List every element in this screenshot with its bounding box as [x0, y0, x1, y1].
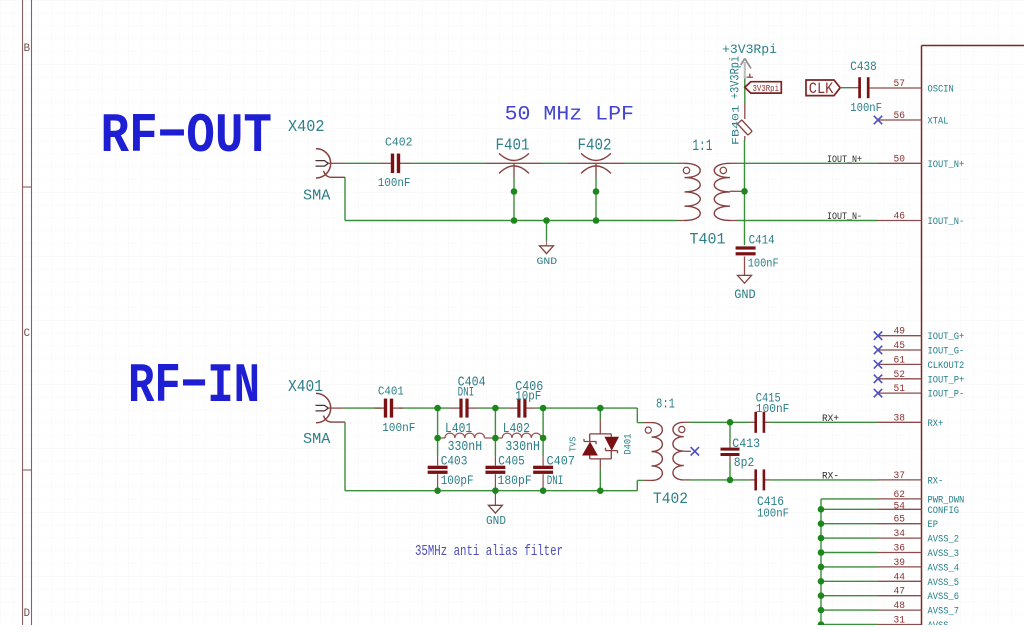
svg-text:51: 51 [894, 384, 906, 395]
svg-text:CLKOUT2: CLKOUT2 [928, 361, 965, 372]
svg-text:C405: C405 [498, 454, 525, 469]
svg-text:RX+: RX+ [928, 419, 944, 430]
svg-text:X402: X402 [288, 117, 325, 136]
svg-text:RX+: RX+ [822, 414, 839, 425]
svg-text:AVSS_4: AVSS_4 [928, 563, 960, 574]
svg-text:50 MHz LPF: 50 MHz LPF [505, 104, 634, 127]
svg-text:100nF: 100nF [850, 101, 882, 115]
svg-text:46: 46 [894, 212, 906, 223]
svg-text:39: 39 [894, 558, 906, 569]
svg-text:PWR_DWN: PWR_DWN [928, 495, 965, 506]
svg-text:AVSS_5: AVSS_5 [928, 578, 960, 589]
svg-text:45: 45 [894, 341, 906, 352]
svg-text:AVSS_2: AVSS_2 [928, 535, 960, 546]
svg-text:56: 56 [894, 111, 906, 122]
svg-text:T401: T401 [690, 231, 726, 249]
svg-text:IOUT_G-: IOUT_G- [928, 347, 965, 358]
svg-text:65: 65 [894, 515, 906, 526]
svg-text:34: 34 [894, 529, 906, 540]
svg-text:C: C [24, 328, 31, 340]
svg-text:X401: X401 [288, 377, 323, 396]
svg-text:XTAL: XTAL [928, 117, 949, 128]
svg-text:31: 31 [894, 616, 906, 626]
svg-text:DNI: DNI [547, 473, 564, 488]
svg-text:100nF: 100nF [757, 507, 789, 521]
svg-text:RX-: RX- [822, 471, 839, 482]
svg-text:180pF: 180pF [498, 473, 532, 488]
svg-text:RX-: RX- [928, 476, 944, 487]
svg-text:FB401: FB401 [731, 105, 743, 145]
svg-text:100pF: 100pF [441, 473, 474, 488]
svg-text:IOUT_N+: IOUT_N+ [928, 160, 965, 171]
svg-text:DNI: DNI [458, 385, 475, 399]
svg-text:AVSS_7: AVSS_7 [928, 607, 960, 618]
svg-text:L402: L402 [503, 422, 530, 437]
svg-text:C414: C414 [749, 234, 775, 248]
svg-text:54: 54 [894, 501, 906, 512]
svg-text:100nF: 100nF [756, 402, 790, 416]
svg-text:F402: F402 [578, 136, 612, 155]
svg-text:IOUT_N-: IOUT_N- [827, 212, 862, 223]
svg-text:62: 62 [894, 490, 906, 501]
svg-text:1:1: 1:1 [692, 137, 712, 155]
svg-text:35MHz anti alias filter: 35MHz anti alias filter [415, 543, 563, 560]
svg-text:10pF: 10pF [515, 389, 541, 404]
svg-text:C402: C402 [385, 137, 413, 150]
svg-text:GND: GND [537, 256, 558, 268]
svg-text:IOUT_N-: IOUT_N- [928, 217, 965, 228]
svg-text:100nF: 100nF [748, 257, 779, 271]
svg-text:L401: L401 [445, 422, 472, 437]
svg-text:SMA: SMA [303, 432, 331, 448]
svg-text:CLK: CLK [809, 80, 834, 98]
svg-text:37: 37 [894, 471, 906, 482]
svg-text:EP: EP [928, 520, 939, 531]
svg-text:CONFIG: CONFIG [928, 506, 960, 517]
svg-text:T402: T402 [653, 490, 688, 508]
svg-text:3V3Rpi: 3V3Rpi [753, 83, 780, 94]
svg-text:OSCIN: OSCIN [928, 85, 954, 96]
svg-text:100nF: 100nF [382, 422, 415, 435]
svg-text:330nH: 330nH [448, 440, 483, 455]
svg-text:C407: C407 [547, 454, 576, 469]
svg-text:IOUT_P-: IOUT_P- [928, 390, 965, 401]
svg-text:TVS: TVS [568, 436, 579, 451]
svg-text:+3V3Rpi: +3V3Rpi [722, 42, 777, 57]
svg-text:GND: GND [486, 515, 506, 528]
svg-text:AVSS_6: AVSS_6 [928, 592, 960, 603]
svg-text:SMA: SMA [303, 188, 331, 204]
svg-text:AVSS: AVSS [928, 621, 949, 625]
svg-text:36: 36 [894, 544, 906, 555]
svg-text:57: 57 [894, 79, 906, 90]
svg-text:52: 52 [894, 370, 906, 381]
svg-text:D: D [24, 608, 31, 620]
svg-text:C413: C413 [732, 437, 760, 451]
svg-text:C403: C403 [441, 454, 468, 469]
svg-text:8:1: 8:1 [656, 397, 675, 413]
svg-text:GND: GND [734, 287, 756, 302]
svg-text:330nH: 330nH [505, 440, 540, 455]
svg-text:61: 61 [894, 355, 906, 366]
svg-text:IOUT_N+: IOUT_N+ [827, 155, 862, 166]
svg-text:B: B [24, 43, 31, 55]
svg-text:+3V3Rpi: +3V3Rpi [728, 56, 743, 99]
svg-text:C401: C401 [378, 386, 404, 399]
svg-text:100nF: 100nF [378, 177, 411, 190]
svg-text:RF−OUT: RF−OUT [101, 104, 273, 168]
svg-text:IOUT_P+: IOUT_P+ [928, 375, 965, 386]
svg-text:RF−IN: RF−IN [128, 354, 260, 418]
svg-text:8p2: 8p2 [734, 456, 755, 470]
svg-text:44: 44 [894, 572, 906, 583]
svg-text:38: 38 [894, 413, 906, 424]
svg-text:D401: D401 [622, 434, 634, 455]
svg-text:F401: F401 [496, 136, 530, 155]
svg-text:50: 50 [894, 154, 906, 165]
svg-text:49: 49 [894, 327, 906, 338]
svg-text:47: 47 [894, 587, 906, 598]
svg-text:48: 48 [894, 601, 906, 612]
svg-text:IOUT_G+: IOUT_G+ [928, 332, 965, 343]
svg-text:C438: C438 [850, 60, 876, 74]
svg-text:AVSS_3: AVSS_3 [928, 549, 960, 560]
